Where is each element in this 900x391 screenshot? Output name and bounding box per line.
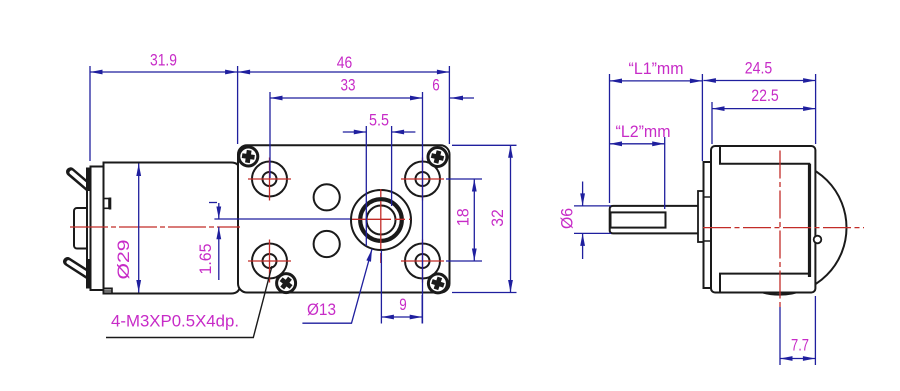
mounting hole bottom-right bbox=[401, 240, 444, 283]
idler hole upper bbox=[314, 184, 340, 210]
shaft bbox=[610, 206, 703, 234]
shaft flat bbox=[611, 212, 666, 227]
mounting hole top-left bbox=[248, 158, 291, 201]
output shaft bearing ring bbox=[360, 199, 402, 241]
dim 1.65 bbox=[209, 203, 350, 281]
mounting hole bottom-left bbox=[248, 240, 291, 283]
dim 5.5 bbox=[343, 126, 416, 246]
dim 31.9 bbox=[90, 66, 238, 161]
output shaft outer circle Ø13 bbox=[351, 190, 411, 250]
dim L2 bbox=[610, 137, 665, 209]
face plate bbox=[704, 162, 712, 288]
gearbox cover edge bbox=[808, 164, 811, 277]
gearbox cover step top bbox=[720, 146, 810, 164]
dim 7.7 bbox=[780, 296, 815, 365]
dim 22.5 bbox=[712, 102, 816, 144]
motor centerline bbox=[70, 226, 240, 228]
face plate notch bottom bbox=[704, 240, 712, 242]
dim 6 bbox=[450, 97, 474, 99]
svg-text:6: 6 bbox=[432, 76, 440, 95]
svg-text:Ø29: Ø29 bbox=[114, 240, 133, 280]
dim 18 bbox=[446, 179, 482, 261]
output shaft centerline horizontal bbox=[352, 218, 411, 220]
gearbox cover step bottom bbox=[720, 274, 810, 293]
motor cap tab top bbox=[104, 198, 111, 210]
leader 4-M3 bbox=[106, 266, 272, 338]
corner screw bottom-left bbox=[277, 274, 296, 293]
motor terminal top bbox=[71, 172, 90, 188]
motor boss bump bbox=[814, 236, 822, 244]
output shaft centerline vertical bbox=[380, 189, 382, 266]
mounting hole top-right bbox=[401, 158, 444, 201]
dim Ø6 bbox=[574, 182, 611, 260]
idler hole lower bbox=[314, 231, 340, 257]
dim Ø29 bbox=[138, 164, 140, 293]
motor brush housing bump bbox=[74, 208, 91, 249]
svg-text:33: 33 bbox=[341, 76, 356, 95]
dim 46 bbox=[238, 66, 450, 144]
face plate notch top bbox=[704, 196, 712, 198]
svg-text:46: 46 bbox=[337, 53, 353, 72]
corner screw top-right bbox=[428, 148, 447, 167]
dim 9 bbox=[381, 251, 422, 324]
motor cap tab bottom (hatched) bbox=[104, 288, 113, 293]
motor terminal bottom bbox=[68, 262, 90, 276]
svg-text:32: 32 bbox=[488, 209, 507, 227]
dim 33 bbox=[270, 92, 423, 324]
svg-text:24.5: 24.5 bbox=[745, 59, 773, 78]
bearing boss bbox=[698, 191, 704, 242]
motor end cap bbox=[91, 167, 104, 291]
side view centerline vertical bbox=[779, 151, 781, 308]
dim 24.5 bbox=[703, 74, 815, 144]
side view centerline horizontal bbox=[703, 227, 864, 229]
svg-text:4-M3XP0.5X4dp.: 4-M3XP0.5X4dp. bbox=[111, 312, 239, 331]
corner screw top-left bbox=[239, 147, 258, 166]
motor body bbox=[104, 163, 241, 294]
motor can (seen from rear) bbox=[713, 161, 847, 295]
svg-text:18: 18 bbox=[453, 208, 472, 226]
leader Ø13 bbox=[302, 249, 372, 323]
gearbox face plate bbox=[238, 145, 450, 292]
svg-text:“L1”mm: “L1”mm bbox=[629, 59, 684, 78]
svg-text:9: 9 bbox=[399, 295, 407, 314]
svg-text:“L2”mm: “L2”mm bbox=[616, 122, 671, 141]
corner screw bottom-right bbox=[428, 274, 447, 293]
dim L1 bbox=[610, 74, 703, 203]
output shaft Ø6 bbox=[367, 206, 396, 235]
svg-text:1.65: 1.65 bbox=[196, 244, 215, 275]
svg-text:5.5: 5.5 bbox=[369, 111, 389, 130]
motor end plate bbox=[87, 169, 91, 288]
gearbox body side bbox=[711, 146, 815, 293]
svg-text:Ø13: Ø13 bbox=[307, 300, 336, 319]
svg-text:7.7: 7.7 bbox=[791, 336, 809, 355]
svg-text:22.5: 22.5 bbox=[751, 86, 779, 105]
svg-text:31.9: 31.9 bbox=[150, 51, 177, 70]
dim 32 bbox=[452, 145, 517, 292]
svg-text:Ø6: Ø6 bbox=[558, 208, 577, 229]
